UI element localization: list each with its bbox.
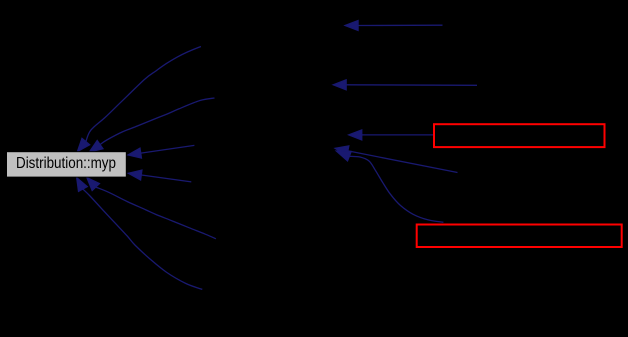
edge E6 caller curve bottom <box>77 177 203 289</box>
node Distribution::myp (current) <box>7 152 127 177</box>
edge R2 second-level arrow <box>333 80 477 90</box>
truncated node 1 (red box) <box>434 124 605 147</box>
edge R1 second-level arrow top <box>345 20 443 30</box>
svg-text:Distribution::myp: Distribution::myp <box>16 155 116 172</box>
truncated node 2 (red box) <box>417 225 622 248</box>
edge R4 second-level diagonal <box>335 146 458 173</box>
edge E1 caller curve top <box>77 47 201 152</box>
edge E5 caller curve lower <box>87 177 216 239</box>
edge R5 curve from truncated node 2 <box>336 151 443 222</box>
edge R3 from truncated node 1 <box>348 130 433 140</box>
edge E2 caller curve upper-mid <box>89 98 214 152</box>
edge E3 caller line right-upper <box>128 145 195 158</box>
edge E4 caller line right-lower <box>128 170 191 182</box>
